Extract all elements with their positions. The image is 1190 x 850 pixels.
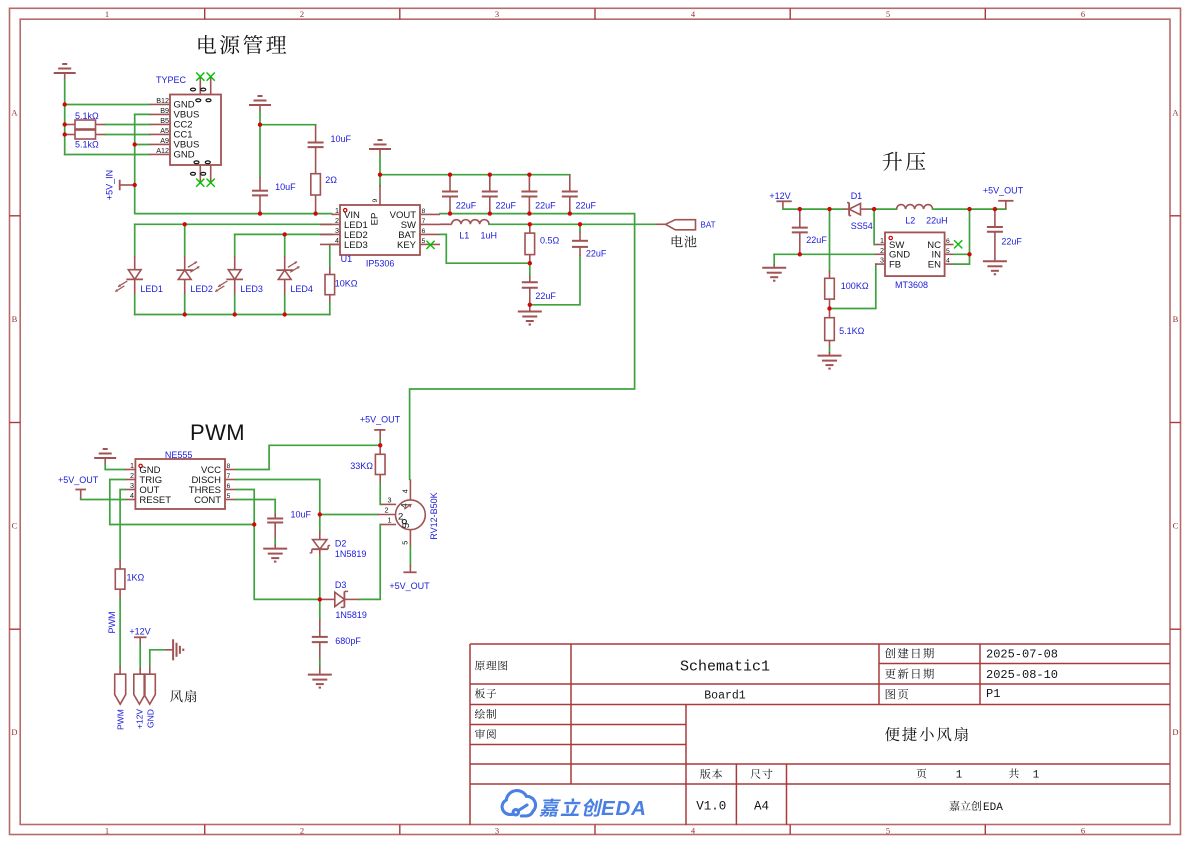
title block page of text [916, 769, 926, 779]
section title shengya [883, 152, 926, 171]
JLC EDA logo text [540, 798, 603, 817]
ground G7 below output cap [983, 260, 1007, 262]
node junction [578, 222, 582, 226]
net port BAT battery connector [656, 223, 666, 225]
potentiometer RV1 RV12-B50K [396, 500, 426, 530]
potentiometer bottom pin 5 [409, 530, 411, 547]
wire VBUS rail to VIN [135, 114, 332, 213]
wire LED pin2 net [135, 223, 332, 225]
title block label shenyue [475, 729, 496, 739]
svg-text:33KΩ: 33KΩ [350, 461, 373, 471]
title block label banben [700, 769, 722, 779]
node junction [133, 183, 137, 187]
svg-text:1: 1 [880, 236, 884, 245]
svg-text:LED1: LED1 [140, 284, 163, 294]
title block label huizhi [475, 709, 496, 719]
svg-text:9: 9 [372, 199, 379, 203]
svg-text:+5V_IN: +5V_IN [105, 170, 115, 200]
svg-text:6: 6 [1081, 826, 1085, 836]
svg-text:+12V: +12V [135, 709, 145, 729]
title block label tuye [886, 689, 908, 699]
svg-text:22uF: 22uF [456, 201, 477, 211]
wire IN EN net [954, 253, 970, 255]
svg-text:7: 7 [422, 218, 426, 225]
node junction G2 [258, 123, 262, 127]
svg-text:6: 6 [1081, 9, 1085, 19]
svg-text:D: D [11, 727, 17, 737]
section title dianyuan guanli [198, 35, 286, 54]
wire boost gnd net [774, 253, 875, 255]
node junction [318, 512, 322, 516]
svg-text:10uF: 10uF [291, 510, 312, 520]
svg-text:22uF: 22uF [586, 249, 607, 259]
potentiometer top pin 4 [409, 479, 411, 500]
svg-text:3: 3 [130, 481, 134, 490]
svg-text:5: 5 [886, 826, 890, 836]
svg-text:BAT: BAT [701, 221, 716, 230]
svg-text:0.5Ω: 0.5Ω [540, 236, 560, 246]
resistor R 100K [829, 209, 831, 271]
resistor R 5.1k upper [65, 124, 75, 126]
svg-text:EDA: EDA [601, 797, 647, 820]
title block label create date [885, 648, 934, 659]
svg-text:TYPEC: TYPEC [156, 75, 187, 85]
wire CC2 [105, 124, 150, 126]
title block company text [949, 801, 981, 811]
ground G10 below 680pF [319, 660, 321, 666]
svg-text:1KΩ: 1KΩ [127, 573, 145, 583]
svg-text:RV12-B50K: RV12-B50K [429, 492, 439, 539]
svg-text:1: 1 [335, 206, 339, 215]
svg-text:D3: D3 [335, 580, 347, 590]
ground G4 below 22uF mid [529, 305, 531, 312]
capacitor C 10uF left [259, 125, 261, 177]
svg-text:6: 6 [422, 228, 426, 235]
wire DISCH to pot pin2 [236, 480, 320, 515]
svg-text:D: D [1172, 727, 1178, 737]
diode D1 SS54 [844, 208, 849, 210]
svg-text:EDA: EDA [983, 802, 1003, 814]
wire BAT pin to 0.5ohm bottom [440, 234, 530, 263]
svg-text:LED3: LED3 [240, 284, 263, 294]
resistor R 1K [119, 560, 121, 569]
svg-text:3: 3 [495, 9, 499, 19]
wire D3 to pot pin1 [360, 525, 381, 600]
svg-text:3: 3 [880, 256, 884, 265]
svg-text:PWM: PWM [107, 612, 117, 634]
svg-text:B9: B9 [160, 106, 169, 115]
inductor L2 22uH [897, 205, 933, 210]
ground G5 boost left [773, 264, 775, 268]
svg-text:A9: A9 [160, 136, 169, 145]
svg-text:EP: EP [370, 213, 381, 226]
svg-text:22uF: 22uF [535, 291, 556, 301]
resistor R 10K [329, 244, 331, 267]
wire THRES [236, 490, 254, 525]
svg-text:1: 1 [105, 9, 109, 19]
node junction below 22uF mid [528, 303, 532, 307]
resistor R 2ohm [315, 152, 317, 174]
svg-text:7: 7 [227, 473, 231, 480]
node junction A9 [133, 142, 137, 146]
svg-text:C: C [1173, 521, 1179, 531]
svg-text:EN: EN [928, 260, 941, 271]
svg-text:2: 2 [300, 9, 304, 19]
svg-text:C: C [12, 521, 18, 531]
TYPEC shell pins top [199, 77, 201, 95]
wire OUT to 1K [120, 490, 125, 561]
svg-text:FB: FB [889, 260, 901, 271]
svg-text:CONT: CONT [194, 495, 221, 506]
svg-text:10KΩ: 10KΩ [335, 279, 358, 289]
svg-text:1: 1 [130, 461, 134, 470]
svg-text:3: 3 [388, 496, 392, 505]
node junction 0.5ohm bottom [528, 261, 532, 265]
svg-text:A12: A12 [156, 146, 169, 155]
svg-text:LED4: LED4 [290, 284, 313, 294]
LED LED4 [284, 234, 286, 256]
svg-text:22uF: 22uF [576, 201, 597, 211]
svg-text:6: 6 [227, 483, 231, 490]
wire FB net [830, 264, 876, 308]
svg-text:2: 2 [300, 826, 304, 836]
svg-text:A4: A4 [754, 800, 769, 814]
svg-text:LED3: LED3 [344, 240, 368, 251]
resistor R 0.5ohm [529, 224, 531, 233]
title block label chicun [750, 769, 772, 779]
resistor R 5.1K boost [829, 309, 831, 318]
connector fan pin PWM [119, 666, 121, 674]
node junction C10uF left bottom [258, 211, 262, 215]
svg-text:22uF: 22uF [806, 235, 827, 245]
svg-text:1: 1 [956, 770, 962, 782]
connector fan pin GND [144, 674, 155, 704]
svg-text:V1.0: V1.0 [696, 800, 726, 814]
svg-text:2: 2 [335, 216, 339, 225]
resistor R 33K [379, 445, 381, 454]
node junction [488, 211, 492, 215]
IC U1 IP5306 [379, 185, 381, 205]
svg-text:A5: A5 [160, 126, 169, 135]
svg-text:22uF: 22uF [496, 201, 517, 211]
wire RESET [81, 499, 125, 501]
svg-text:SS54: SS54 [851, 221, 873, 231]
svg-text:U1: U1 [341, 254, 353, 264]
no-connect X on KEY [426, 241, 434, 249]
wire D1 to L2 [870, 208, 897, 210]
svg-text:8: 8 [422, 208, 426, 215]
node junction [528, 222, 532, 226]
title block project name bianjie xiaofengshan [885, 727, 968, 741]
svg-text:4: 4 [946, 258, 950, 265]
svg-text:GND: GND [174, 150, 195, 161]
wire SW column [873, 209, 875, 244]
svg-text:+5V_OUT: +5V_OUT [983, 186, 1024, 196]
svg-text:5.1kΩ: 5.1kΩ [75, 140, 99, 150]
wire A12 GND [65, 154, 150, 156]
svg-text:5.1KΩ: 5.1KΩ [839, 326, 865, 336]
ground G8 at NE555 GND [103, 448, 108, 450]
svg-text:2: 2 [130, 471, 134, 480]
svg-text:5.1kΩ: 5.1kΩ [75, 111, 99, 121]
TYPEC shell pins bottom [199, 165, 201, 183]
svg-text:LED2: LED2 [190, 284, 213, 294]
node junction [967, 207, 971, 211]
wire VOUT to battery net [410, 214, 635, 480]
JLC EDA logo cloud icon [502, 791, 535, 816]
wire 33K to pot pin3 [379, 484, 382, 504]
svg-text:GND: GND [146, 709, 156, 728]
svg-text:10uF: 10uF [275, 182, 296, 192]
svg-text:5: 5 [401, 523, 412, 528]
node junction EP rail [378, 173, 382, 177]
svg-text:B: B [1173, 314, 1179, 324]
node junction [527, 173, 531, 177]
wire G2 node [260, 124, 316, 126]
wire LED pin3 net [235, 233, 332, 235]
svg-text:4: 4 [335, 236, 339, 245]
svg-text:1: 1 [105, 826, 109, 836]
svg-text:22uF: 22uF [535, 201, 556, 211]
column ticks top/bottom [204, 8, 206, 19]
ground G2 [258, 95, 263, 97]
svg-text:MT3608: MT3608 [895, 280, 928, 290]
capacitor C 22uF boost input [799, 209, 801, 228]
svg-text:8: 8 [227, 463, 231, 470]
svg-text:1: 1 [388, 516, 392, 525]
svg-text:A: A [1172, 108, 1179, 118]
svg-text:1: 1 [1033, 770, 1039, 782]
node junction [993, 207, 997, 211]
IC U2 MT3608 [885, 232, 945, 276]
svg-text:3: 3 [335, 226, 339, 235]
ground G9 below 10uF 555 [274, 540, 276, 545]
wire SW to BAT connector [489, 223, 656, 225]
svg-text:B12: B12 [156, 96, 169, 105]
ground G6 below 5.1K [829, 348, 831, 352]
LED LED3 [234, 234, 236, 256]
svg-text:PWM: PWM [116, 709, 126, 730]
svg-text:4: 4 [130, 491, 134, 500]
wire VCC net [236, 445, 380, 469]
svg-text:3: 3 [495, 826, 499, 836]
capacitor C 22uF boost output [994, 209, 996, 227]
svg-text:2: 2 [880, 246, 884, 255]
svg-text:Schematic1: Schematic1 [680, 659, 770, 676]
svg-text:PWM: PWM [190, 420, 245, 445]
wire VOUT top rail [380, 174, 570, 176]
net flag +5V_IN [119, 180, 121, 191]
svg-text:D2: D2 [335, 539, 347, 549]
svg-text:2Ω: 2Ω [325, 175, 337, 185]
svg-text:Board1: Board1 [704, 690, 746, 703]
row ticks left/right [10, 215, 21, 217]
inductor L1 1uH [440, 223, 452, 225]
svg-text:+5V_OUT: +5V_OUT [58, 475, 99, 485]
wire THRES node down to D3 [254, 525, 320, 600]
wire CC1 [105, 134, 150, 136]
node junction [527, 211, 531, 215]
svg-text:IP5306: IP5306 [366, 259, 395, 269]
svg-text:1N5819: 1N5819 [335, 610, 367, 620]
svg-text:+12V: +12V [769, 191, 790, 201]
ground G3 above EP [378, 139, 383, 141]
svg-text:4: 4 [401, 489, 410, 493]
capacitor C 10uF right [315, 125, 317, 143]
wire to 22uF right bottom [530, 256, 580, 305]
wire left rail [64, 105, 66, 155]
svg-text:6: 6 [946, 238, 950, 245]
connector label fengshan [170, 690, 196, 703]
title block label yuanlitu [475, 661, 507, 671]
node junction R upper left [62, 122, 66, 126]
svg-text:100KΩ: 100KΩ [841, 281, 869, 291]
capacitor C 680pF [319, 599, 321, 619]
svg-text:5: 5 [886, 9, 890, 19]
capacitor C 22uF mid [529, 263, 531, 276]
wire fan gnd [149, 665, 151, 674]
node junction R lower left [62, 132, 66, 136]
svg-text:2: 2 [385, 506, 389, 515]
svg-text:1uH: 1uH [481, 231, 498, 241]
svg-text:L2: L2 [905, 215, 915, 225]
svg-text:680pF: 680pF [335, 636, 361, 646]
svg-text:5: 5 [401, 541, 410, 545]
no-connect X on NC [954, 240, 962, 248]
svg-text:5: 5 [227, 493, 231, 500]
svg-text:2025-07-08: 2025-07-08 [986, 648, 1058, 662]
wire L2 to +5V_OUT [933, 208, 1006, 210]
svg-text:5: 5 [422, 238, 426, 245]
ground G11 fan sideways [172, 639, 174, 660]
wire EP pin stub [379, 175, 381, 186]
svg-text:+12V: +12V [129, 626, 150, 636]
connector fan pin +12V [134, 674, 145, 704]
LED LED2 [184, 224, 186, 256]
node junction 33K top [378, 443, 382, 447]
capacitor C 10uF 555 [236, 500, 275, 515]
svg-text:P1: P1 [986, 687, 1000, 701]
net flag +5V_OUT below pot [409, 565, 411, 572]
svg-text:RESET: RESET [139, 495, 171, 506]
node junction 22uF bottom [798, 252, 802, 256]
node junction R2ohm bottom [313, 211, 317, 215]
LED LED1 [134, 224, 136, 256]
node junction FB divider [827, 306, 831, 310]
svg-text:5: 5 [946, 248, 950, 255]
node junction [568, 211, 572, 215]
node junctions boost rail [798, 207, 802, 211]
node junctions LED bottom rail [183, 312, 187, 316]
wire pot pin5 to flag [409, 547, 411, 565]
svg-text:A: A [11, 108, 18, 118]
svg-text:+5V_OUT: +5V_OUT [360, 415, 401, 425]
wire LED bottom rail [135, 314, 330, 316]
wire boost top rail left [783, 208, 844, 210]
svg-text:KEY: KEY [397, 240, 417, 251]
diode D3 1N5819 [320, 598, 335, 600]
node junction [872, 207, 876, 211]
capacitor C 22uF right [579, 224, 581, 231]
node junction B12 [62, 102, 66, 106]
wire A9 VBUS stub [135, 144, 150, 146]
wire 1K to fan pin [119, 599, 121, 666]
capacitor C 22uF bank [449, 175, 451, 192]
node junction [448, 173, 452, 177]
svg-text:1N5819: 1N5819 [335, 549, 367, 559]
svg-text:10uF: 10uF [331, 134, 352, 144]
ground G1 top-left [62, 63, 67, 65]
wire B12 GND [65, 104, 150, 106]
node junction IN [967, 252, 971, 256]
node junction LED4 top [283, 232, 287, 236]
node junction [448, 211, 452, 215]
diode D2 1N5819 [319, 515, 321, 532]
svg-text:22uH: 22uH [926, 215, 948, 225]
title block label banzi [475, 688, 496, 698]
node junction LED2 top [183, 222, 187, 226]
svg-text:B5: B5 [160, 116, 169, 125]
node junction TRIG THRES [252, 522, 256, 526]
svg-text:+5V_OUT: +5V_OUT [389, 581, 430, 591]
title block label update date [885, 668, 934, 679]
svg-text:D1: D1 [851, 191, 863, 201]
node junction [488, 173, 492, 177]
title block grid [470, 644, 1170, 825]
svg-text:B: B [12, 314, 18, 324]
svg-text:L1: L1 [459, 231, 469, 241]
node junction D3 anode [318, 597, 322, 601]
svg-text:22uF: 22uF [1001, 236, 1022, 246]
wire TRIG to THRES [110, 480, 254, 525]
resistor R 5.1k lower [65, 134, 75, 136]
svg-text:2025-08-10: 2025-08-10 [986, 668, 1058, 682]
